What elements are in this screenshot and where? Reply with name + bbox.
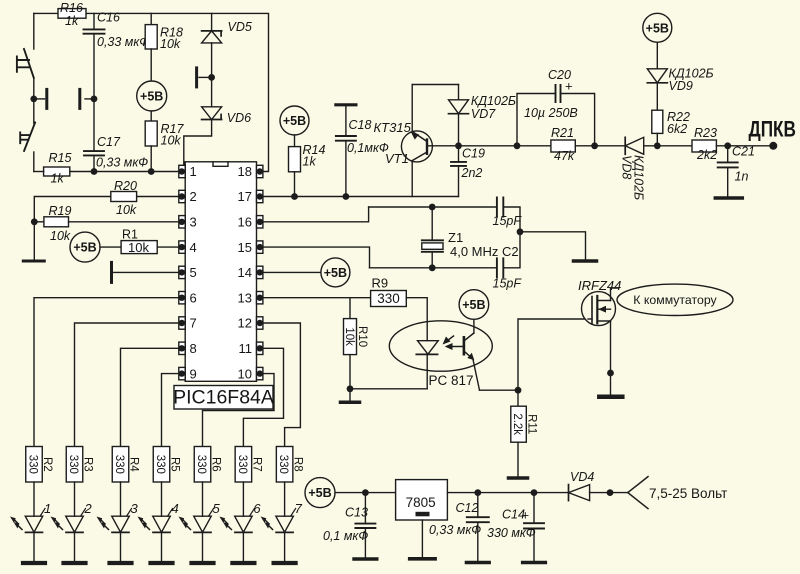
- svg-text:1k: 1k: [303, 155, 317, 169]
- pin 14: [257, 266, 263, 278]
- pin 4: [179, 241, 185, 253]
- svg-text:R23: R23: [694, 126, 717, 140]
- wire opto LED cathode down: [426, 354, 428, 388]
- wire VD6 to pin 1: [184, 120, 212, 166]
- wire R6 to LED 5: [202, 482, 204, 516]
- svg-text:C21: C21: [732, 145, 755, 159]
- wire LED 3 to ground: [120, 532, 122, 561]
- wire collector rail to VD7: [412, 84, 458, 86]
- svg-text:330: 330: [277, 455, 289, 474]
- pin 13: [257, 292, 263, 304]
- power +5V supply (regulator output): [305, 478, 335, 508]
- svg-text:6: 6: [253, 501, 261, 516]
- resistor R9 330: [371, 291, 407, 307]
- ground (R10): [341, 401, 360, 405]
- ground (LED 5): [192, 561, 214, 565]
- wire pin 9 to R5: [162, 374, 180, 447]
- svg-text:C13: C13: [345, 506, 368, 520]
- node C13 tap: [362, 489, 369, 496]
- pin 12: [257, 317, 263, 329]
- svg-text:2k2: 2k2: [696, 148, 717, 162]
- svg-text:11: 11: [239, 341, 253, 356]
- wire caps node to ground: [520, 232, 586, 259]
- svg-text:7: 7: [190, 316, 197, 331]
- svg-text:0,1 мкФ: 0,1 мкФ: [323, 529, 368, 543]
- node R14 bottom: [291, 193, 298, 200]
- svg-text:C12: C12: [456, 501, 479, 515]
- svg-text:4: 4: [190, 240, 197, 255]
- svg-text:PC 817: PC 817: [428, 373, 473, 388]
- wire pin 5 to contact plate: [113, 271, 179, 273]
- svg-text:9: 9: [190, 366, 197, 381]
- svg-text:7: 7: [295, 501, 303, 516]
- svg-text:КТ315: КТ315: [374, 120, 412, 135]
- svg-text:330: 330: [195, 455, 207, 474]
- wire junction to contact plate: [199, 76, 212, 78]
- svg-text:4: 4: [172, 501, 179, 516]
- capacitor C18: [336, 136, 356, 141]
- svg-text:+5В: +5В: [462, 298, 485, 312]
- svg-text:6: 6: [190, 290, 197, 305]
- svg-text:8: 8: [190, 341, 197, 356]
- svg-text:2: 2: [190, 189, 197, 204]
- svg-text:10k: 10k: [116, 203, 137, 217]
- svg-text:47k: 47k: [554, 149, 575, 163]
- wire LED 4 to ground: [161, 532, 163, 561]
- power +5V supply (R14): [280, 106, 309, 135]
- svg-text:R4: R4: [128, 457, 140, 472]
- ground (left): [23, 260, 44, 263]
- svg-text:R16: R16: [60, 1, 83, 15]
- transistor Q1 IRFZ44 MOSFET: [582, 292, 616, 326]
- wire top rail to R18: [150, 13, 152, 24]
- wire VD7 to node: [458, 114, 460, 162]
- node R10 bottom: [347, 385, 354, 392]
- svg-text:1: 1: [44, 501, 51, 516]
- svg-text:R15: R15: [49, 151, 72, 165]
- wire to contact plate left: [34, 98, 45, 100]
- LED 7: [276, 516, 294, 532]
- node buttons mid junction: [30, 96, 37, 103]
- wire opto collector to +5V: [473, 319, 475, 333]
- wire 7805 input rail: [447, 492, 567, 494]
- wire contact plate to C16 node: [85, 98, 94, 100]
- opto light arrows: [448, 336, 464, 347]
- svg-text:+5В: +5В: [308, 486, 331, 500]
- svg-text:10k: 10k: [50, 229, 71, 243]
- svg-text:5: 5: [190, 265, 197, 280]
- capacitor C2b 15pF (bottom): [497, 258, 503, 277]
- wire opto emitter down: [473, 359, 480, 390]
- wire button to R15: [34, 171, 44, 173]
- wire LED 1 to ground: [33, 532, 35, 561]
- svg-text:10k: 10k: [161, 134, 182, 148]
- pin 16: [257, 216, 263, 228]
- wire node to R10: [349, 298, 351, 319]
- svg-text:10k: 10k: [128, 240, 149, 255]
- resistor R16: [58, 9, 86, 19]
- wire pin 7 to R3: [75, 323, 180, 447]
- diode VD6: [202, 107, 222, 120]
- pin 3: [179, 216, 185, 228]
- IC U1 PIC16F84A body: [185, 162, 256, 381]
- svg-text:Z1: Z1: [448, 230, 463, 245]
- ground bar above C18: [336, 103, 356, 106]
- wire crystal bottom rail: [370, 267, 497, 269]
- regulator U3 7805: [396, 480, 448, 520]
- capacitor C14 electrolytic: [533, 493, 535, 524]
- wire VT1 collector up: [411, 85, 413, 132]
- pin 5: [179, 266, 185, 278]
- node R17 bottom junction: [148, 168, 155, 175]
- node VD5-VD6 junction: [208, 74, 215, 81]
- svg-text:0,33 мкФ: 0,33 мкФ: [429, 523, 481, 537]
- wire VD8 to R23: [644, 145, 692, 147]
- wire pin 12 to R8: [263, 323, 301, 447]
- resistor R2 330: [26, 447, 43, 483]
- wire node to R11: [517, 390, 519, 406]
- resistor R21: [551, 140, 575, 152]
- pin 17: [257, 190, 263, 202]
- ground (LED 3): [110, 561, 132, 565]
- wire R17 to pin 1 rail: [150, 146, 152, 172]
- svg-text:VD4: VD4: [570, 470, 594, 484]
- svg-text:R8: R8: [292, 457, 304, 472]
- pin 7: [179, 317, 185, 329]
- wire R14 to pin 17 row: [294, 172, 296, 197]
- ground (MOSFET source): [599, 395, 622, 400]
- node after VD4: [607, 489, 614, 496]
- capacitor C21: [718, 162, 738, 167]
- LED 2: [66, 516, 84, 532]
- wire pin 6 to R2: [34, 298, 179, 447]
- wire LED 7 to ground: [284, 532, 286, 561]
- svg-text:330: 330: [27, 455, 39, 474]
- svg-text:16: 16: [238, 215, 252, 230]
- wire +5V to VD9: [656, 42, 658, 69]
- svg-text:3: 3: [131, 501, 139, 516]
- wire pin 10 to R6: [203, 374, 275, 447]
- svg-text:2.2k: 2.2k: [511, 413, 523, 435]
- ground (crystal caps): [574, 259, 597, 263]
- resistor R22: [652, 110, 663, 133]
- contact plate at VD junction: [195, 68, 198, 87]
- wire junction to ground: [33, 222, 35, 259]
- node C17 bottom junction: [91, 168, 98, 175]
- svg-text:VD8: VD8: [620, 155, 634, 179]
- wire C18 to pin 17 row: [345, 141, 347, 197]
- node C12 tap: [474, 489, 481, 496]
- svg-text:PIC16F84A: PIC16F84A: [173, 387, 274, 409]
- wire R22 to node: [656, 133, 658, 145]
- svg-text:14: 14: [238, 265, 252, 280]
- svg-text:10k: 10k: [343, 327, 355, 346]
- resistor R23: [692, 140, 716, 152]
- node C20 left branch: [514, 142, 521, 149]
- wire R15 to pin 1: [70, 171, 179, 173]
- LED 1: [25, 516, 43, 532]
- svg-text:R5: R5: [169, 457, 181, 472]
- resistor R4 330: [112, 447, 129, 483]
- wire R21 to VD8: [575, 145, 625, 147]
- ground (C13): [354, 557, 377, 561]
- svg-text:15pF: 15pF: [493, 277, 523, 291]
- wire junction to R19: [34, 221, 44, 223]
- svg-text:VD7: VD7: [471, 107, 496, 121]
- svg-text:R9: R9: [372, 276, 389, 291]
- wire VT1 base: [427, 145, 451, 147]
- transistor VT1 KT315: [401, 131, 432, 162]
- svg-text:12: 12: [238, 316, 252, 331]
- capacitor C19: [451, 162, 466, 166]
- wire button column top: [33, 13, 35, 49]
- svg-text:C16: C16: [97, 11, 120, 25]
- power +5V supply (opto): [459, 290, 489, 320]
- wire C20 left lead: [517, 94, 556, 146]
- svg-text:18: 18: [238, 164, 252, 179]
- resistor R18: [145, 25, 157, 49]
- capacitor C2a 15pF (top): [497, 198, 503, 217]
- capacitor C17: [84, 151, 104, 155]
- svg-text:0,33 мкФ: 0,33 мкФ: [96, 156, 148, 170]
- wire +5V to R1: [100, 246, 121, 248]
- wire R23 to DPKV terminal: [716, 145, 773, 147]
- resistor R20: [111, 192, 137, 202]
- svg-text:КД102Б: КД102Б: [632, 155, 646, 200]
- svg-text:R3: R3: [82, 457, 94, 472]
- svg-text:R11: R11: [525, 414, 537, 434]
- wire top rail left: [34, 12, 58, 14]
- diode VD8: [625, 137, 644, 154]
- svg-text:5: 5: [213, 501, 221, 516]
- node on source wire: [607, 370, 614, 377]
- power +5V supply (VD9): [643, 13, 672, 42]
- wire R10 to bottom node: [349, 355, 351, 389]
- ground (R11): [509, 476, 528, 480]
- capacitor C13: [364, 493, 366, 524]
- diode VD5: [202, 31, 222, 43]
- contact plate right: [78, 89, 81, 108]
- svg-text:+: +: [565, 79, 573, 94]
- ground (LED 4): [151, 561, 173, 565]
- opto phototransistor: [463, 337, 466, 354]
- svg-text:0,33 мкФ: 0,33 мкФ: [97, 35, 149, 49]
- pin 8: [179, 342, 185, 354]
- wire top rail to C16: [93, 13, 95, 29]
- svg-text:3: 3: [190, 215, 197, 230]
- wire VT1 emitter down: [411, 161, 413, 197]
- svg-text:330: 330: [236, 455, 248, 474]
- wire crystal top rail: [369, 206, 497, 208]
- svg-text:R7: R7: [250, 457, 262, 472]
- svg-text:R19: R19: [49, 204, 72, 218]
- wire button SB2 to R15: [33, 152, 35, 172]
- wire ground to C18: [345, 105, 347, 136]
- wire top rail to VD5: [211, 13, 213, 31]
- contact plate left: [45, 89, 48, 108]
- wire 7805 ground: [421, 520, 423, 557]
- wire pin 16 to top crystal rail: [263, 207, 369, 222]
- node C18 bottom: [343, 193, 350, 200]
- diode VD4: [569, 485, 590, 501]
- svg-text:1: 1: [190, 164, 197, 179]
- svg-text:2n2: 2n2: [461, 166, 483, 180]
- wire top rail to pin 18: [86, 13, 269, 171]
- wire to VD7: [458, 85, 460, 100]
- svg-text:R6: R6: [210, 457, 222, 472]
- wire R2 to LED 1: [33, 482, 35, 516]
- resistor R15: [44, 167, 70, 176]
- svg-text:1k: 1k: [51, 172, 65, 186]
- wire VD5 to VD6: [211, 43, 213, 107]
- svg-text:IRFZ44: IRFZ44: [578, 278, 621, 293]
- svg-text:330 мкФ: 330 мкФ: [487, 526, 536, 540]
- svg-text:VT1: VT1: [385, 151, 409, 166]
- wire R3 to LED 2: [74, 482, 76, 516]
- resistor R11 2.2k: [511, 406, 527, 442]
- svg-text:R10: R10: [356, 326, 368, 347]
- svg-text:VD9: VD9: [669, 79, 693, 93]
- svg-text:0,1мкФ: 0,1мкФ: [347, 141, 389, 155]
- svg-text:10µ 250В: 10µ 250В: [524, 106, 578, 120]
- resistor R17: [145, 121, 157, 146]
- svg-text:VD6: VD6: [227, 111, 251, 125]
- pin 2: [179, 190, 185, 202]
- svg-text:+5В: +5В: [324, 266, 347, 280]
- power +5V supply (R1): [70, 232, 100, 262]
- pin 6: [179, 292, 185, 304]
- svg-text:10k: 10k: [160, 37, 181, 51]
- svg-text:КД102Б: КД102Б: [471, 94, 516, 108]
- LED 5: [194, 516, 212, 532]
- wire R5 to LED 4: [161, 482, 163, 516]
- svg-text:15pF: 15pF: [493, 214, 523, 228]
- wire C21 to ground: [727, 167, 729, 196]
- svg-text:C19: C19: [462, 147, 485, 161]
- wire R8 to LED 7: [284, 482, 286, 516]
- wire pin 13 to R9: [263, 297, 371, 299]
- svg-text:2: 2: [84, 501, 93, 516]
- wire C19 to pin 17 row: [458, 166, 460, 197]
- wire to button SB2: [33, 99, 35, 123]
- wire node to opto LED cathode: [350, 388, 427, 390]
- contact plate at pin 5: [110, 262, 113, 282]
- wire C20 right lead: [561, 94, 595, 146]
- wire VD4 to input connector: [590, 492, 628, 494]
- wire pin 8 to R4: [121, 348, 180, 446]
- wire node to R21: [451, 145, 551, 147]
- optocoupler U2 PC817: [389, 321, 492, 371]
- crystal Z1 4.0 MHz: [431, 207, 433, 240]
- pin 11: [257, 342, 263, 354]
- pin 18: [257, 165, 263, 177]
- button SB1: [17, 49, 34, 78]
- svg-text:330: 330: [113, 455, 125, 474]
- svg-text:VD5: VD5: [228, 20, 252, 34]
- svg-text:330: 330: [377, 291, 400, 306]
- resistor R7 330: [235, 447, 252, 483]
- node crystal caps common: [517, 228, 524, 235]
- ground (C12): [467, 561, 490, 565]
- resistor R3 330: [66, 447, 83, 483]
- resistor R5 330: [153, 447, 170, 483]
- svg-text:R21: R21: [551, 126, 574, 140]
- wire node to ground: [349, 389, 351, 401]
- wire LED 6 to ground: [242, 532, 244, 561]
- wire VD9 to R22: [656, 83, 658, 110]
- capacitor C12: [477, 493, 479, 518]
- node gate/R11: [515, 387, 522, 394]
- ground (LED 6): [232, 561, 254, 565]
- ground (7805): [410, 557, 435, 561]
- svg-text:C18: C18: [349, 118, 372, 132]
- capacitor C16: [84, 29, 105, 33]
- resistor R8 330: [276, 447, 293, 483]
- wire +5V to R14: [294, 135, 296, 147]
- input connector 7.5-25V: [628, 477, 648, 509]
- svg-text:R2: R2: [41, 457, 53, 472]
- node C14 tap: [531, 489, 538, 496]
- wire pin 2 to R20: [137, 196, 179, 198]
- svg-text:10: 10: [238, 366, 252, 381]
- resistor R14: [289, 147, 301, 172]
- wire pin 17 row: [263, 196, 459, 198]
- wire R7 to LED 6: [242, 482, 244, 516]
- wire bottom cap to common node: [503, 232, 520, 268]
- wire R19 to pin 3: [69, 221, 180, 223]
- svg-text:17: 17: [238, 189, 252, 204]
- node Z1 top: [429, 204, 436, 211]
- diode VD9: [647, 69, 667, 83]
- pin 15: [257, 241, 263, 253]
- wire pin 11 to R7: [243, 348, 283, 446]
- svg-text:13: 13: [238, 290, 252, 305]
- ground (LED 2): [64, 561, 86, 565]
- wire R18 to +5V: [150, 49, 152, 81]
- node R22 bottom: [654, 142, 661, 149]
- wire emitter to gate node: [480, 389, 519, 391]
- wire pin 15 to bottom crystal rail: [263, 247, 370, 268]
- svg-text:К коммутатору: К коммутатору: [633, 293, 717, 307]
- wire R9 to opto LED: [406, 298, 427, 341]
- node C21 top: [724, 142, 731, 149]
- wire +5V to 7805: [335, 492, 396, 494]
- node VD7/C19/base: [455, 142, 462, 149]
- svg-text:7805: 7805: [406, 495, 436, 510]
- node C20 right branch: [591, 142, 598, 149]
- ground (LED 1): [23, 561, 45, 565]
- wire node to C21: [727, 146, 729, 163]
- svg-text:330: 330: [67, 455, 79, 474]
- ground (C21): [715, 196, 742, 200]
- pin 1: [179, 165, 185, 177]
- svg-text:ДПКВ: ДПКВ: [749, 118, 796, 143]
- wire C17 to pin1 rail: [93, 155, 95, 171]
- LED 6: [235, 516, 253, 532]
- svg-text:1n: 1n: [735, 170, 749, 184]
- wire pin 14 to +5V: [263, 271, 321, 273]
- wire LED 5 to ground: [202, 532, 204, 561]
- wire MOSFET source to ground: [610, 321, 612, 394]
- wire +5V to R17: [150, 111, 152, 121]
- resistor R6 330: [194, 447, 211, 483]
- wire MOSFET drain to output: [611, 288, 619, 301]
- node Z1 bottom: [429, 264, 436, 271]
- svg-text:C17: C17: [97, 135, 121, 149]
- svg-text:+5В: +5В: [73, 241, 96, 255]
- ground (LED 7): [274, 561, 296, 565]
- output ellipse: K kommutatoru: [617, 284, 733, 315]
